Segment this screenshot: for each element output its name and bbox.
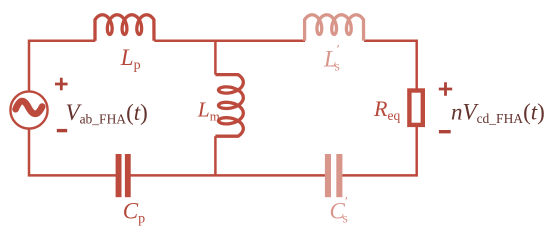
svg-text:Req: Req <box>373 96 400 123</box>
wire top-left to left side down <box>29 41 121 176</box>
svg-text:Vab_FHA(t): Vab_FHA(t) <box>66 100 148 127</box>
svg-text:nVcd_FHA(t): nVcd_FHA(t) <box>451 99 545 126</box>
wire right below resistor to bottom <box>337 127 417 175</box>
inductor L_p coil <box>95 15 154 41</box>
resistor R_eq box <box>409 91 422 125</box>
svg-text:C′s: C′s <box>330 195 348 227</box>
capacitor C_s' plates (light) <box>325 154 331 197</box>
wire middle branch top <box>214 40 217 75</box>
plus sign left <box>55 78 68 91</box>
wire top middle segment <box>154 39 305 42</box>
wire bottom middle segment <box>125 174 330 177</box>
svg-text:L′s: L′s <box>323 43 340 75</box>
svg-text:Cp: Cp <box>123 198 145 226</box>
plus sign right <box>439 82 452 95</box>
wire top-right and right side down to resistor <box>364 41 417 89</box>
minus sign left <box>57 129 67 132</box>
wire middle branch bottom <box>214 136 217 176</box>
svg-text:Lm: Lm <box>197 98 220 124</box>
inductor L_s' coil (light) <box>305 15 364 41</box>
AC source V1 circle <box>10 91 47 128</box>
svg-text:Lp: Lp <box>120 45 141 73</box>
inductor L_m coil <box>215 75 243 137</box>
AC source sine wave <box>16 101 43 114</box>
minus sign right <box>439 130 451 133</box>
capacitor C_p plates <box>116 154 122 197</box>
